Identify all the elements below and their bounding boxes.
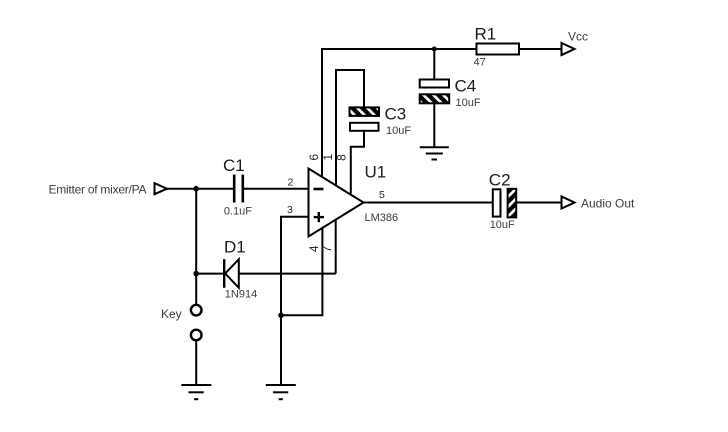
capacitor C2 plain plate: [493, 189, 501, 216]
op-amp plus symbol: [314, 212, 324, 222]
svg-text:5: 5: [379, 189, 385, 201]
svg-text:Vcc: Vcc: [568, 29, 588, 43]
svg-text:0.1uF: 0.1uF: [224, 206, 252, 218]
svg-text:3: 3: [287, 204, 293, 216]
diode D1: [224, 259, 239, 288]
svg-text:7: 7: [320, 245, 334, 252]
svg-text:2: 2: [288, 176, 294, 188]
svg-text:LM386: LM386: [365, 212, 399, 224]
svg-text:47: 47: [474, 56, 486, 68]
svg-text:10uF: 10uF: [456, 97, 481, 109]
wire input to C1: [167, 188, 233, 190]
node junction key branch / D1: [193, 271, 199, 277]
capacitor C2 hatched plate: [508, 189, 517, 218]
svg-text:D1: D1: [224, 238, 246, 257]
wire C1 to op-amp pin2: [244, 188, 309, 190]
svg-text:10uF: 10uF: [490, 219, 515, 231]
capacitor C4 hatched plate: [420, 94, 450, 103]
svg-text:R1: R1: [475, 25, 497, 44]
capacitor C4 plain plate: [420, 80, 449, 88]
resistor R1: [477, 44, 520, 55]
svg-text:1: 1: [321, 154, 335, 161]
svg-text:4: 4: [307, 245, 321, 252]
wire pin7 drop: [335, 220, 337, 274]
wire key lower circle to ground: [195, 341, 197, 385]
ground (left): [181, 385, 211, 399]
svg-text:U1: U1: [365, 162, 387, 181]
wire D1 anode side: [196, 273, 223, 275]
svg-text:C2: C2: [489, 170, 511, 189]
svg-text:6: 6: [307, 154, 321, 161]
ground (middle): [266, 385, 296, 399]
op-amp minus symbol: [314, 188, 324, 191]
key terminal circle lower: [191, 330, 202, 341]
svg-text:Audio Out: Audio Out: [581, 196, 635, 210]
ground (C4): [420, 147, 449, 159]
Audio Out port arrow: [562, 197, 575, 209]
input port arrow (Emitter of mixer/PA): [155, 183, 168, 194]
svg-text:Emitter of mixer/PA: Emitter of mixer/PA: [49, 182, 147, 196]
svg-text:C3: C3: [385, 104, 407, 123]
capacitor C3 plain plate: [350, 123, 379, 131]
wire D1 cathode run to pin7: [239, 273, 336, 275]
capacitor C3 hatched plate: [350, 107, 380, 116]
Vcc port arrow: [562, 43, 575, 55]
capacitor C1 right plate: [242, 175, 245, 203]
wire key branch vertical: [195, 189, 197, 305]
wire pin3 stub and drop to ground: [281, 217, 309, 385]
wire top rail left segment (pin6 riser top to R1): [322, 49, 477, 177]
wire output pin5 to C2: [364, 202, 493, 204]
svg-text:C1: C1: [223, 156, 245, 175]
wire pin1 riser and jog to C3 top: [336, 70, 364, 185]
op-amp U1 triangle: [309, 169, 364, 237]
svg-text:10uF: 10uF: [386, 125, 411, 137]
wire pin4 to junction: [281, 228, 322, 315]
node junction top rail / C4 branch: [432, 47, 437, 52]
wire C4 branch upper: [433, 49, 435, 80]
svg-text:C4: C4: [455, 76, 477, 95]
svg-text:Key: Key: [161, 307, 182, 321]
node junction pin3 drop / pin4 link: [278, 313, 284, 319]
capacitor C1 left plate: [233, 175, 236, 203]
svg-text:8: 8: [335, 154, 349, 161]
wire top rail right segment (R1 to Vcc arrow): [519, 48, 562, 50]
key terminal circle upper: [191, 305, 202, 316]
svg-text:1N914: 1N914: [225, 289, 257, 301]
wire C2 to audio out arrow: [516, 202, 561, 204]
wire C3 bottom jog to pin8: [351, 131, 364, 194]
wire C4 to ground: [433, 103, 435, 147]
node junction input / key branch: [193, 186, 199, 192]
